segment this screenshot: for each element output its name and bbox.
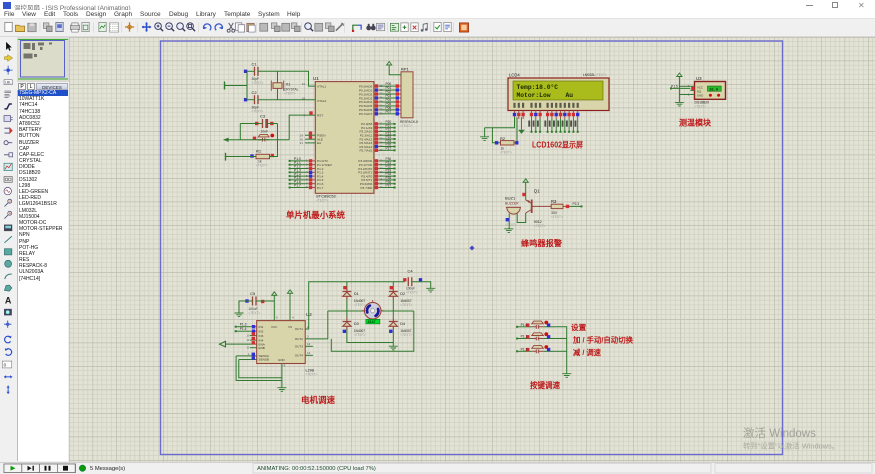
resistor R3 — [551, 199, 563, 219]
resistor R2 — [495, 136, 519, 155]
svg-text:测温模块: 测温模块 — [679, 118, 712, 128]
svg-text:C3: C3 — [260, 114, 266, 119]
U2 left pin names — [259, 325, 270, 362]
svg-text:D4: D4 — [400, 322, 405, 326]
svg-text:13: 13 — [307, 342, 311, 346]
svg-text:R1: R1 — [256, 149, 262, 154]
svg-text:BUZZER: BUZZER — [505, 202, 519, 206]
svg-text:按键调速: 按键调速 — [530, 380, 561, 390]
ground (buttons) — [562, 374, 571, 378]
power terminal VCC (buzzer) — [525, 182, 527, 187]
svg-text:RP1: RP1 — [401, 67, 410, 72]
ground arrow terminal (ENA) — [220, 341, 226, 347]
svg-text:<TEXT>: <TEXT> — [400, 303, 412, 307]
svg-text:<TEXT>: <TEXT> — [284, 92, 296, 96]
power terminal VCC (U2 VS) — [289, 293, 291, 298]
svg-text:<TEXT>: <TEXT> — [400, 333, 412, 337]
svg-text:OUT2: OUT2 — [295, 337, 304, 341]
svg-text:P37: P37 — [386, 184, 392, 188]
resistor pack RP1 RESPACK-8 — [400, 67, 418, 129]
svg-text:IN2: IN2 — [259, 329, 264, 333]
svg-text:设置: 设置 — [571, 322, 587, 332]
svg-text:X1: X1 — [286, 82, 292, 87]
U1 P1.0-P1.7 pins with net labels — [289, 157, 316, 163]
ground (bridge) — [389, 346, 398, 350]
wire buzzer left to ground — [508, 214, 510, 229]
svg-text:IN3: IN3 — [259, 334, 264, 338]
capacitor C4 — [403, 269, 422, 295]
wire DQ with net label — [671, 87, 691, 89]
button K3 (inc) — [516, 332, 555, 340]
svg-text:P0.7/AD7: P0.7/AD7 — [359, 112, 373, 116]
svg-text:LCD4: LCD4 — [509, 73, 520, 78]
svg-text:RST: RST — [317, 113, 323, 117]
svg-text:D3: D3 — [354, 322, 359, 326]
svg-text:XTAL2: XTAL2 — [317, 99, 327, 103]
svg-text:LM032L: LM032L — [583, 73, 595, 77]
wire VCC to Q1 emitter — [525, 187, 527, 200]
ground (LCD VSS triangle) — [518, 117, 525, 134]
svg-text:LBL: LBL — [5, 81, 12, 85]
buzzer BUZ1 — [505, 195, 521, 227]
svg-text:蜂鸣器报警: 蜂鸣器报警 — [521, 238, 563, 248]
wire motor row — [347, 310, 364, 312]
U3 pin stubs — [690, 86, 694, 94]
U1 P3 pins with net labels — [374, 157, 396, 163]
wire VCC to RP1 pin1 — [389, 70, 401, 75]
LCD pin name column — [513, 103, 578, 108]
wire C5 right to VCC riser — [256, 300, 274, 302]
svg-text:C4: C4 — [408, 269, 414, 274]
svg-text:P1.4: P1.4 — [240, 327, 247, 331]
svg-text:12: 12 — [246, 338, 250, 342]
transistor Q1 PNP — [526, 188, 552, 228]
wire C4 right to ground — [412, 282, 431, 288]
wire to R2 — [492, 128, 500, 143]
svg-text:<TEXT>: <TEXT> — [534, 224, 546, 228]
svg-text:Au: Au — [566, 92, 574, 99]
wire xtal left rail — [225, 85, 248, 87]
wire VCC down to gnd rail — [678, 81, 680, 102]
svg-text:GND: GND — [697, 94, 703, 98]
U1 right pin names — [359, 84, 373, 116]
motor driver U2 L298 body — [257, 312, 318, 377]
wire buzzer right to Q1 collector — [517, 213, 526, 223]
svg-text:10: 10 — [246, 334, 250, 338]
ground (LCD rail) — [480, 137, 489, 141]
svg-text:转到“设置”以激活 Windows。: 转到“设置”以激活 Windows。 — [743, 441, 839, 450]
wire VCC pin 9 — [273, 300, 275, 321]
svg-text:C2: C2 — [252, 90, 258, 95]
ground (DS18B20) — [675, 102, 684, 106]
svg-text:<TEXT>: <TEXT> — [306, 373, 318, 377]
svg-text:P27: P27 — [386, 146, 392, 150]
svg-text:D1: D1 — [354, 292, 359, 296]
ground arrow terminal (reset node) — [224, 138, 230, 143]
svg-text:Motor:Low: Motor:Low — [517, 92, 551, 99]
wire VCC pin — [679, 85, 690, 87]
IC U1 microcontroller STC89C52 body — [313, 76, 374, 203]
svg-text:C5: C5 — [250, 291, 256, 296]
wire OUT2 routing — [305, 338, 328, 340]
svg-text:11: 11 — [247, 346, 250, 350]
svg-text:GND: GND — [278, 358, 286, 362]
U2 GND pin wire — [281, 364, 283, 388]
resistor R1 — [250, 149, 274, 168]
svg-text:LCD1602显示屏: LCD1602显示屏 — [532, 141, 583, 150]
LCD pins with state squares and net labels — [513, 111, 516, 120]
svg-text:2547: 2547 — [368, 321, 376, 325]
svg-text:BUZ1: BUZ1 — [505, 195, 516, 200]
capacitor C2 — [244, 90, 264, 114]
svg-text:电机调速: 电机调速 — [301, 395, 336, 405]
diode D3 — [343, 317, 366, 337]
svg-text:P2.3: P2.3 — [573, 202, 580, 206]
capacitor C5 — [245, 291, 264, 315]
svg-text:0: 0 — [4, 363, 7, 368]
svg-text:IN1: IN1 — [259, 325, 264, 329]
svg-text:<TEXT>: <TEXT> — [354, 333, 366, 337]
svg-text:U1: U1 — [313, 76, 319, 81]
power terminal VCC (U2 VCC) — [273, 295, 275, 300]
U1 P2 pins with net labels — [374, 120, 396, 126]
ground (C4) — [426, 288, 435, 292]
svg-text:Q1: Q1 — [534, 188, 540, 193]
svg-text:P1.1: P1.1 — [521, 335, 528, 339]
svg-text:<TEXT>: <TEXT> — [249, 311, 261, 315]
button K4 (dec) — [516, 345, 555, 353]
svg-text:Temp:18.0°C: Temp:18.0°C — [517, 83, 559, 91]
svg-text:OUT3: OUT3 — [295, 345, 304, 349]
svg-text:<TEXT>: <TEXT> — [354, 303, 366, 307]
ground (C5) — [235, 313, 244, 317]
LCD LCD4 LM032L display — [508, 73, 609, 111]
U2 SENSA SENSB wires to ground — [236, 352, 257, 356]
svg-text:18: 18 — [302, 96, 306, 100]
U1 PSEN ALE EA pins — [300, 132, 316, 146]
svg-text:ANIMATING: 00:00:52.150000 (CP: ANIMATING: 00:00:52.150000 (CPU load 7%) — [257, 466, 376, 472]
svg-text:激活 Windows: 激活 Windows — [743, 426, 816, 440]
ground (U2) — [277, 388, 286, 392]
wire crystal taps — [277, 71, 279, 83]
svg-text:VS: VS — [288, 325, 292, 329]
svg-text:OUT4: OUT4 — [295, 354, 304, 358]
sheet border — [161, 41, 783, 455]
svg-text:<TEXT>: <TEXT> — [551, 215, 563, 219]
button K2 (set) — [516, 321, 555, 329]
wire RST to chip — [289, 115, 315, 140]
svg-text:P2.7/A15: P2.7/A15 — [359, 149, 372, 153]
svg-text:C1: C1 — [252, 62, 258, 67]
svg-text:SENSB: SENSB — [259, 358, 270, 362]
svg-text:P1.2: P1.2 — [521, 347, 528, 351]
svg-text:XTAL1: XTAL1 — [317, 84, 327, 88]
wire D1/D2 verticals — [346, 282, 348, 288]
diode D2 — [389, 287, 412, 307]
crystal X1 — [271, 81, 298, 96]
wire C1 to XTAL1 — [258, 71, 315, 86]
wire VS pin 4 — [289, 298, 291, 321]
svg-text:OUT1: OUT1 — [295, 327, 304, 331]
wire LCD VEE to ground rail — [485, 117, 515, 128]
svg-text:单片机最小系统: 单片机最小系统 — [286, 209, 345, 220]
svg-text:加 / 手动/自动切换: 加 / 手动/自动切换 — [572, 336, 634, 345]
svg-text:ENB: ENB — [259, 346, 265, 350]
wire D3/D4 bottoms to ground — [347, 330, 393, 343]
svg-text:<TEXT>: <TEXT> — [505, 223, 517, 227]
diode D1 — [343, 287, 366, 307]
wire OUT3 stub — [305, 342, 313, 346]
svg-text:A: A — [5, 296, 12, 306]
svg-text:14: 14 — [307, 351, 311, 355]
U1 left pin names — [317, 84, 327, 145]
U1 P0 pins to RP1 with net labels — [374, 82, 401, 88]
wire R3 to net label — [563, 205, 567, 207]
svg-text:P3.7/RD: P3.7/RD — [360, 186, 372, 190]
motor M1 DC motor — [362, 300, 384, 325]
power terminal VCC (DS18B20) — [678, 76, 680, 81]
svg-text:<TEXT>: <TEXT> — [595, 73, 607, 77]
svg-text:<TEXT>: <TEXT> — [400, 124, 412, 128]
svg-text:R2: R2 — [500, 136, 506, 141]
svg-text:D2: D2 — [400, 292, 405, 296]
svg-text:P1.5: P1.5 — [671, 84, 678, 88]
diode D4 — [389, 317, 412, 337]
capacitor C1 — [244, 62, 264, 86]
wire reset node — [229, 139, 290, 141]
U2 IN3 IN4 ENA ENB pins — [246, 332, 256, 337]
svg-text:<TEXT>: <TEXT> — [256, 164, 268, 168]
button K1 (reset) — [253, 134, 274, 142]
svg-text:P1.0: P1.0 — [521, 323, 528, 327]
svg-text:10uF: 10uF — [261, 130, 269, 134]
wire OUT4 stub — [305, 351, 313, 355]
wire button common bus — [555, 327, 567, 374]
temperature sensor U3 DS18B20 — [695, 76, 726, 109]
svg-text:18.0: 18.0 — [709, 88, 719, 92]
wire C2 to XTAL2 — [258, 99, 315, 101]
svg-text:<TEXT>: <TEXT> — [316, 199, 328, 203]
svg-text:P07: P07 — [386, 110, 392, 114]
svg-text:<TEXT>: <TEXT> — [695, 105, 707, 109]
capacitor C3 electrolytic — [255, 114, 274, 134]
svg-text:P1.7: P1.7 — [294, 184, 301, 188]
svg-text:<TEXT>: <TEXT> — [252, 81, 264, 85]
svg-text:<TEXT>: <TEXT> — [406, 291, 418, 295]
wire OUT1 to top rail — [305, 282, 405, 329]
power bar terminal (xtal gnd) — [224, 82, 226, 90]
svg-text:减 / 调速: 减 / 调速 — [573, 348, 602, 357]
svg-text:31: 31 — [300, 141, 304, 145]
wire GND pin — [679, 94, 690, 96]
svg-text:VCC: VCC — [271, 325, 278, 329]
svg-text:5 Message(s): 5 Message(s) — [90, 466, 125, 472]
svg-text:P1.3: P1.3 — [240, 323, 247, 327]
svg-text:19: 19 — [302, 82, 306, 86]
svg-text:R3: R3 — [551, 199, 557, 204]
power terminal VCC (RP1) — [388, 65, 390, 70]
svg-text:P1.7: P1.7 — [317, 186, 324, 190]
ground (buzzer) — [504, 229, 513, 233]
svg-text:U3: U3 — [696, 76, 702, 81]
svg-text:<TEXT>: <TEXT> — [500, 151, 512, 155]
power bar terminal (R1 left) — [225, 153, 227, 161]
node origin marker — [470, 246, 475, 251]
wire C5 left to ground — [239, 301, 253, 313]
U2 IN1 IN2 wires with net labels — [235, 323, 257, 329]
